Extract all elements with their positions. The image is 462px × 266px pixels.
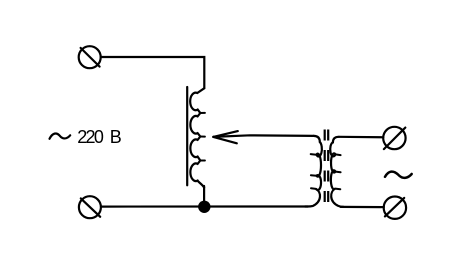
wire secondary top to terminal X3 <box>339 136 383 139</box>
winding cusp tick 3 <box>200 160 205 162</box>
wire secondary bottom to terminal X4 <box>341 206 384 208</box>
junction node (dot) <box>198 201 210 213</box>
AC symbol at mains <box>50 133 71 138</box>
transformer T2 core (dashed) <box>325 130 329 203</box>
autotransformer T1 winding <box>190 88 204 187</box>
wire from X1 to autotransformer top <box>101 57 205 88</box>
winding cusp tick 1 <box>200 112 205 114</box>
transformer T2 secondary winding <box>330 137 343 207</box>
autotransformer T1 core <box>186 87 188 185</box>
primary cusp tick 1 <box>311 153 317 156</box>
secondary cusp tick 3 <box>335 188 340 191</box>
primary cusp tick 2 <box>311 174 317 177</box>
wiper arrow of autotransformer <box>213 131 238 143</box>
svg-text:В: В <box>110 127 122 147</box>
primary cusp tick 3 <box>311 187 316 190</box>
svg-text:220: 220 <box>77 127 104 147</box>
wire bottom rail from X2 to transformer primary bottom <box>101 205 308 207</box>
terminal X3 (output top-right) <box>383 127 405 149</box>
secondary cusp tick 2 <box>336 171 341 174</box>
wire from winding bottom to junction <box>203 186 205 202</box>
transformer T2 primary winding <box>305 136 322 207</box>
AC symbol at output <box>385 172 412 178</box>
terminal X1 (mains top-left) <box>79 46 101 68</box>
terminal X2 (mains bottom-left) <box>79 196 101 218</box>
secondary cusp tick 1 <box>336 153 341 156</box>
wire wiper to transformer primary (arrow shaft) <box>213 135 313 137</box>
winding cusp tick 2 <box>200 136 205 138</box>
terminal X4 (output bottom-right) <box>384 197 406 219</box>
